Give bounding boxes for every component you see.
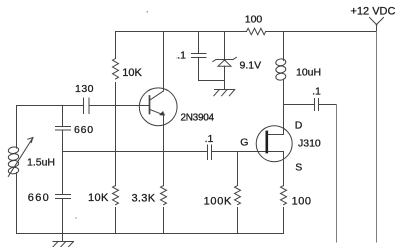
wire inductor to drain xyxy=(283,79,285,135)
capacitor C2 660 (upper) xyxy=(56,127,71,131)
svg-text:130: 130 xyxy=(75,83,94,95)
wire mid feedback rail (left of .1 cap) xyxy=(63,151,208,153)
wire top of 10K bias vertical xyxy=(115,32,117,59)
wire 660 lower cap top lead xyxy=(62,152,64,195)
ground (bottom, below rail) xyxy=(53,234,74,247)
svg-text:10uH: 10uH xyxy=(296,66,321,78)
svg-text:9.1V: 9.1V xyxy=(240,59,262,71)
wire drain node top lead xyxy=(283,32,285,61)
speck 2 xyxy=(75,217,77,219)
arrow of variable inductor xyxy=(8,138,33,177)
svg-text:.1: .1 xyxy=(205,133,214,145)
resistor R2 10K (upper bias) xyxy=(113,59,119,79)
wire source down to 100 resistor xyxy=(283,152,285,186)
wire 10K bottom to base wire xyxy=(115,83,117,106)
transistor Q2 J310 JFET xyxy=(256,126,292,162)
svg-text:100K: 100K xyxy=(204,195,233,207)
svg-text:S: S xyxy=(295,162,302,174)
wire bottom ground rail xyxy=(17,233,284,235)
wire left tank rail lower xyxy=(16,173,18,234)
wire output vertical drop xyxy=(336,105,338,243)
wire top rail right segment xyxy=(266,31,377,33)
svg-text:10K: 10K xyxy=(122,67,142,79)
wire mid rail to JFET gate xyxy=(212,151,266,153)
wire left tank rail upper xyxy=(16,106,18,149)
svg-text:3.3K: 3.3K xyxy=(132,192,156,204)
wire emitter down xyxy=(163,115,165,186)
wire 660 upper cap bottom lead xyxy=(62,130,64,152)
inductor L1 1.5uH (variable) xyxy=(8,146,19,174)
wire bypass-to-zener link xyxy=(199,80,225,82)
svg-text:G: G xyxy=(240,136,248,148)
svg-text:660: 660 xyxy=(74,124,94,136)
wire right +12V rail xyxy=(376,32,378,243)
wire zener top lead xyxy=(224,32,226,60)
wire 660 lower cap bottom lead xyxy=(62,199,64,234)
wire 10K lower to ground rail xyxy=(115,208,117,234)
svg-text:2N3904: 2N3904 xyxy=(181,113,215,124)
wire 100K to ground rail xyxy=(237,208,239,234)
resistor R6 100K xyxy=(235,186,241,205)
wire 3.3K to ground rail xyxy=(163,208,165,234)
capacitor C1 130 xyxy=(84,98,90,114)
svg-text:D: D xyxy=(295,120,303,132)
resistor R4 3.3K xyxy=(161,186,167,205)
wire output cap to right drop xyxy=(319,104,337,106)
wire base rail (left) xyxy=(17,105,84,107)
speck 1 xyxy=(147,11,149,13)
svg-text:.1: .1 xyxy=(177,50,186,62)
speck 3 xyxy=(176,57,177,58)
resistor R3 10K (lower) xyxy=(113,186,119,205)
svg-text:1.5uH: 1.5uH xyxy=(27,156,55,168)
svg-text:660: 660 xyxy=(28,192,50,204)
inductor L2 10uH xyxy=(275,58,286,81)
svg-text:100: 100 xyxy=(245,13,263,25)
wire 100K gate branch xyxy=(237,152,239,186)
wire 660 upper cap top lead xyxy=(62,106,64,127)
transistor Q1 2N3904 xyxy=(139,88,177,126)
capacitor C6 .1 (output) xyxy=(315,99,319,111)
wire source resistor to ground rail xyxy=(283,208,285,234)
wire .1 bypass bottom lead xyxy=(198,58,200,81)
capacitor C3 .1 (gate coupling) xyxy=(208,145,212,160)
svg-text:.1: .1 xyxy=(312,86,321,98)
svg-text:J310: J310 xyxy=(298,138,321,150)
wire zener bottom lead xyxy=(224,66,226,89)
capacitor C5 .1 (supply bypass) xyxy=(192,54,207,58)
capacitor C4 660 (lower) xyxy=(56,195,71,199)
ground (zener) xyxy=(214,90,235,96)
svg-text:10K: 10K xyxy=(88,192,109,204)
wire .1 bypass top lead xyxy=(198,32,200,54)
+12 VDC supply symbol xyxy=(370,18,384,32)
wire drain tee to output cap xyxy=(284,104,315,106)
resistor R5 100 (source) xyxy=(281,186,287,205)
resistor R1 100 (top) xyxy=(247,28,266,34)
wire base rail (right of 130 cap) xyxy=(89,105,150,107)
diode D1 9.1V zener xyxy=(213,57,237,66)
wire top rail left segment xyxy=(116,31,247,33)
svg-text:100: 100 xyxy=(292,195,312,207)
wire 10K-lower branch vertical xyxy=(115,106,117,186)
svg-text:+12 VDC: +12 VDC xyxy=(351,6,396,18)
wire collector to top rail xyxy=(163,32,165,92)
